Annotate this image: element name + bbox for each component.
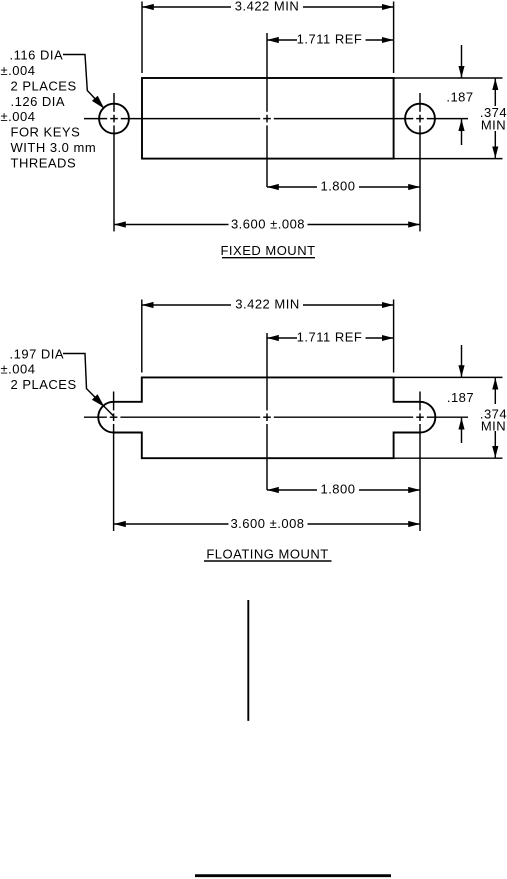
svg-text:.187: .187: [446, 90, 473, 105]
dimension 3.422 MIN (fixed): [142, 0, 394, 14]
.187 down arrow (fixed): [461, 45, 463, 78]
svg-text:THREADS: THREADS: [11, 155, 77, 170]
.187 down arrow (floating): [461, 345, 463, 377]
.187 up arrow (floating): [461, 418, 463, 443]
vertical extension line through right hole: [419, 93, 421, 231]
cutout rectangle outline: [142, 78, 394, 159]
vertical rule fragment: [247, 600, 249, 721]
svg-text:±.004: ±.004: [1, 109, 36, 124]
.187 up arrow (fixed): [461, 119, 463, 145]
svg-text:FOR KEYS: FOR KEYS: [11, 125, 81, 140]
svg-text:1.711 REF: 1.711 REF: [297, 330, 363, 345]
leader line from .197 DIA note to left slot: [63, 354, 114, 417]
svg-text:FIXED MOUNT: FIXED MOUNT: [220, 243, 315, 258]
vertical extension line at rectangle left edge: [141, 2, 143, 74]
svg-text:1.800: 1.800: [320, 482, 355, 497]
dimension 1.800 (floating): [267, 482, 420, 497]
horizontal center line: [84, 118, 468, 120]
.374 dimension line bottom arrow (floating): [494, 431, 496, 458]
svg-text:±.004: ±.004: [1, 362, 36, 377]
svg-text:.187: .187: [447, 390, 474, 405]
svg-text:3.600 ±.008: 3.600 ±.008: [231, 217, 305, 232]
svg-text:2 PLACES: 2 PLACES: [11, 377, 77, 392]
floating cutout outline: [98, 377, 435, 458]
.374 dimension line top arrow (fixed): [494, 78, 496, 106]
bottom edge extension line (floating): [394, 457, 503, 459]
FIXED MOUNT title: [220, 243, 315, 258]
.374 dimension line bottom arrow (fixed): [494, 131, 496, 158]
vertical center extension line: [266, 33, 268, 187]
vertical center extension line (floating): [266, 333, 268, 490]
left mounting hole circle: [99, 104, 129, 134]
svg-text:WITH 3.0 mm: WITH 3.0 mm: [11, 140, 97, 155]
svg-text:FLOATING MOUNT: FLOATING MOUNT: [206, 547, 328, 562]
leader arrowhead (floating): [92, 394, 105, 407]
svg-text:.197 DIA: .197 DIA: [10, 346, 65, 361]
vertical extension line through left slot center: [113, 392, 115, 532]
dimension 1.711 REF (floating): [267, 330, 394, 345]
.374 MIN label (fixed): [480, 105, 507, 132]
top edge extension line (floating): [394, 376, 503, 378]
horizontal center line (floating): [84, 416, 468, 418]
right mounting hole circle: [405, 104, 435, 134]
svg-text:.126 DIA: .126 DIA: [11, 94, 66, 109]
svg-text:2 PLACES: 2 PLACES: [11, 78, 77, 93]
vertical extension line at right edge (floating): [393, 300, 395, 373]
.374 dimension line top arrow (floating): [494, 378, 496, 404]
FLOATING MOUNT title: [204, 547, 332, 562]
svg-text:MIN: MIN: [481, 117, 506, 132]
vertical extension line through left hole: [113, 93, 115, 231]
dimension 3.422 MIN (floating): [142, 297, 394, 312]
bottom edge extension line (fixed): [394, 158, 503, 160]
vertical extension line at left edge (floating): [141, 300, 143, 373]
slot note text block (floating): [1, 346, 77, 392]
svg-text:3.422 MIN: 3.422 MIN: [235, 0, 299, 14]
svg-text:1.711 REF: 1.711 REF: [297, 32, 363, 47]
leader line from .116 DIA note to left hole: [63, 55, 104, 108]
svg-text:3.422 MIN: 3.422 MIN: [235, 297, 299, 312]
dimension 3.600 +/-.008 (floating): [114, 516, 420, 531]
svg-text:3.600 ±.008: 3.600 ±.008: [230, 516, 304, 531]
vertical extension line through right slot center: [419, 392, 421, 532]
.374 MIN label (floating): [480, 406, 507, 433]
vertical extension line at rectangle right edge: [393, 2, 395, 74]
svg-text:MIN: MIN: [481, 419, 506, 434]
leader arrowhead (fixed): [92, 96, 104, 109]
top edge extension line (fixed): [394, 77, 503, 79]
dimension 1.711 REF (fixed): [267, 32, 394, 47]
dimension 3.600 +/-.008 (fixed): [114, 217, 420, 232]
hole note text block (fixed): [1, 48, 97, 171]
svg-text:.116 DIA: .116 DIA: [10, 48, 64, 63]
svg-text:±.004: ±.004: [1, 63, 36, 78]
svg-text:1.800: 1.800: [320, 179, 355, 194]
dimension 1.800 (fixed): [267, 179, 420, 194]
bottom horizontal rule: [195, 874, 391, 877]
